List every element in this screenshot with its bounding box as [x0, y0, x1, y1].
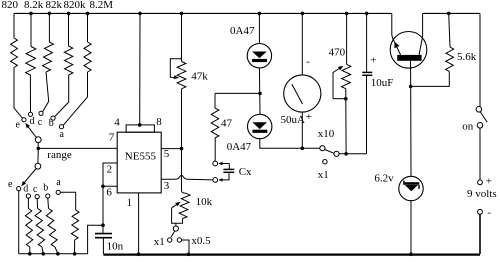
switch pole x10	[320, 146, 325, 151]
svg-text:x1: x1	[318, 169, 329, 181]
switch contact to cal node	[334, 151, 339, 156]
svg-text:range: range	[47, 149, 72, 161]
node base/5.6k	[409, 85, 413, 89]
switch contact b (upper)	[51, 116, 55, 120]
pin label 5	[164, 148, 170, 160]
switch contact x0.5	[177, 238, 181, 242]
node x0.5/ground	[187, 253, 191, 257]
label NE555	[125, 150, 157, 162]
label meter plus	[306, 111, 312, 123]
node range junction	[37, 147, 41, 151]
label 0A47 (D1)	[230, 25, 255, 37]
top value labels 820 8.2k 82k 820k 8.2M	[2, 0, 114, 11]
label x1 (bottom)	[154, 236, 165, 248]
wire meter to x10 wire	[301, 112, 303, 148]
wire rail to D1	[258, 13, 260, 43]
svg-text:10n: 10n	[107, 241, 124, 253]
label 5.6k	[457, 51, 477, 63]
svg-text:2: 2	[107, 164, 113, 176]
svg-text:3: 3	[164, 180, 170, 192]
wire 555 pins 4-8 to rail	[139, 13, 141, 125]
svg-text:9 volts: 9 volts	[467, 188, 497, 200]
label 470	[329, 47, 346, 59]
svg-text:470: 470	[329, 47, 346, 59]
svg-text:Cx: Cx	[239, 166, 252, 178]
capacitor Cx symbol	[218, 162, 234, 182]
resistor multiplier c	[35, 199, 45, 254]
wire D1 to D2	[258, 68, 261, 114]
svg-text:820k: 820k	[64, 0, 87, 11]
wire x0.5 to ground rail	[182, 240, 189, 254]
transistor Q1	[390, 13, 427, 68]
node pin5/47k/10k	[180, 147, 184, 151]
node zener/ground	[409, 253, 413, 257]
label 10k	[196, 196, 213, 208]
svg-text:82k: 82k	[46, 0, 63, 11]
svg-text:8: 8	[156, 116, 162, 128]
rotary wiper arm (upper)	[25, 123, 36, 138]
label a (lower)	[56, 177, 61, 188]
switch arm x10	[325, 150, 334, 154]
wire pins 2-6 down to 10n node	[102, 186, 104, 225]
switch contact x1	[168, 238, 172, 242]
label 47	[221, 118, 233, 130]
label battery -	[487, 207, 491, 219]
svg-text:10k: 10k	[196, 196, 213, 208]
node 470/cal	[344, 152, 348, 156]
wire 47 top to diode node	[215, 92, 260, 94]
label x10	[318, 128, 335, 140]
label d (lower)	[23, 184, 28, 195]
wire zener to ground rail	[410, 201, 412, 254]
wire battery - to ground rail	[479, 214, 481, 254]
svg-text:+: +	[306, 111, 312, 123]
switch contact a (lower)	[56, 190, 60, 194]
wire switch to battery +	[479, 128, 481, 180]
label x1 (meter)	[318, 169, 329, 181]
node bank/d	[28, 252, 32, 256]
svg-text:47k: 47k	[191, 70, 208, 82]
svg-text:50uA: 50uA	[281, 114, 306, 126]
switch contact c (lower)	[35, 195, 39, 199]
wire pin 1 to ground rail	[138, 193, 140, 254]
zener diode 6.2v	[399, 176, 423, 200]
wire contact e to bank rail	[18, 191, 20, 254]
svg-text:NE555: NE555	[125, 150, 157, 162]
node pin2-6	[101, 185, 105, 189]
svg-text:on: on	[462, 121, 474, 133]
svg-text:10uF: 10uF	[371, 77, 394, 89]
label range	[47, 149, 72, 161]
wire 10k wiper to pole	[175, 223, 177, 225]
switch contact e (lower)	[17, 187, 21, 191]
node 470 bottom	[344, 97, 348, 101]
switch on-off arm	[480, 112, 487, 122]
switch arm x-mult	[171, 231, 175, 237]
switch on-off pivot	[476, 107, 482, 113]
resistor 82k	[43, 13, 54, 111]
rotary pole (upper)	[35, 137, 41, 143]
label 6.2v	[374, 173, 394, 185]
resistor 5.6k	[411, 13, 454, 86]
label 10n	[107, 241, 124, 253]
label 0A47 (D2)	[227, 141, 252, 153]
switch contact e (upper)	[22, 118, 26, 122]
wire ground rail (thick)	[103, 254, 480, 256]
resistor 820	[11, 13, 23, 118]
node rail/diodes	[258, 12, 262, 16]
svg-text:5.6k: 5.6k	[457, 51, 477, 63]
svg-text:+: +	[370, 55, 376, 67]
label x0.5	[191, 235, 211, 247]
label 9 volts	[467, 188, 497, 200]
node bank/b	[56, 252, 60, 256]
wire 555 pin 3 to Cx terminal (with hop)	[161, 175, 213, 180]
node rail/82k	[48, 12, 52, 16]
switch pole x-mult	[173, 226, 178, 231]
svg-text:a: a	[56, 177, 61, 188]
pin label 4	[114, 117, 120, 129]
wire 470 bottom to cal node	[345, 99, 347, 154]
resistor 8.2k	[26, 13, 36, 112]
svg-text:1: 1	[127, 197, 133, 209]
svg-text:5: 5	[164, 148, 170, 160]
switch contact d (lower)	[26, 194, 30, 198]
wire lower bank rail	[19, 225, 103, 254]
switch contact c (upper)	[39, 111, 43, 115]
label b (lower)	[43, 183, 48, 194]
node rail/820k	[67, 12, 71, 16]
resistor multiplier b	[46, 198, 58, 254]
node diodes/47	[258, 92, 262, 96]
label d (upper)	[30, 116, 35, 127]
pin label 2	[107, 164, 113, 176]
wire pin5 node down to 10k	[182, 149, 187, 194]
label e (upper)	[16, 120, 21, 131]
node 10n top junction	[101, 223, 105, 227]
wire cal contact to node	[339, 153, 366, 155]
label e (lower)	[8, 179, 13, 190]
switch contact a (upper)	[59, 125, 63, 129]
label Cx	[239, 166, 252, 178]
node rail/470	[345, 12, 349, 16]
diode D1 0A47	[247, 44, 271, 68]
svg-text:x10: x10	[318, 128, 335, 140]
resistor 820k	[55, 13, 73, 116]
svg-text:x1: x1	[154, 236, 165, 248]
svg-text:0A47: 0A47	[227, 141, 252, 153]
wire range node to 555 pin 7	[38, 147, 117, 149]
svg-text:820: 820	[2, 0, 19, 11]
switch contact on	[477, 123, 483, 129]
label 50uA	[281, 114, 306, 126]
label on	[462, 121, 474, 133]
label b (upper)	[49, 118, 54, 129]
NE555 top tab pins 4-8	[126, 125, 154, 132]
capacitor 10uF	[362, 13, 372, 153]
svg-text:0A47: 0A47	[230, 25, 255, 37]
switch contact b (lower)	[46, 194, 50, 198]
resistor multiplier a	[60, 192, 79, 254]
svg-text:a: a	[60, 129, 65, 140]
switch contact d (upper)	[28, 112, 32, 116]
op-amp U1 NE555 body	[117, 132, 161, 193]
wire collector segment to battery switch	[423, 12, 480, 14]
node tab top	[138, 123, 142, 127]
svg-text:8.2k: 8.2k	[24, 0, 44, 11]
wire Cx top terminal to 47R	[214, 138, 216, 161]
svg-text:x0.5: x0.5	[191, 235, 211, 247]
pin 2-6 stub box	[103, 163, 117, 186]
svg-text:c: c	[38, 117, 43, 128]
node bank/a	[73, 252, 77, 256]
node rail/47k	[180, 12, 184, 16]
svg-text:e: e	[8, 179, 13, 190]
svg-text:d: d	[23, 184, 28, 195]
svg-text:-: -	[487, 207, 491, 219]
svg-text:6: 6	[106, 186, 112, 198]
wire battery switch drop	[479, 13, 481, 106]
svg-text:+: +	[486, 175, 492, 187]
svg-text:d: d	[30, 116, 35, 127]
wire pole to range node	[37, 143, 39, 149]
pin label 3	[164, 180, 170, 192]
meter M 50uA	[284, 13, 321, 112]
label c (upper)	[38, 117, 43, 128]
rotary wiper arm (lower)	[21, 169, 36, 187]
label 10uF plus	[370, 55, 376, 67]
wire base down to zener	[410, 61, 413, 177]
label 10uF	[371, 77, 394, 89]
label a (upper)	[60, 129, 65, 140]
svg-text:b: b	[49, 118, 54, 129]
node bank/c	[42, 252, 46, 256]
svg-text:e: e	[16, 120, 21, 131]
svg-text:8.2M: 8.2M	[90, 0, 114, 11]
svg-text:b: b	[43, 183, 48, 194]
switch contact x1 (meter)	[323, 160, 327, 164]
node collector/5.6k	[447, 12, 451, 16]
svg-text:7: 7	[109, 131, 115, 143]
label battery +	[486, 175, 492, 187]
pin label 6	[106, 186, 112, 198]
node rail/8.2k	[29, 12, 33, 16]
node rail/555 pins 4-8	[138, 12, 142, 16]
pin label 8	[156, 116, 162, 128]
diode D2 0A47	[248, 114, 272, 138]
svg-text:4: 4	[114, 117, 120, 129]
rotary pole (lower)	[35, 163, 41, 169]
wire top +9V rail	[14, 12, 392, 14]
resistor 8.2M	[63, 13, 91, 125]
resistor 47	[211, 93, 219, 138]
svg-text:-: -	[306, 56, 310, 68]
node rail/meter	[301, 12, 305, 16]
svg-text:6.2v: 6.2v	[374, 173, 394, 185]
node rail/8.2M	[86, 12, 90, 16]
label meter minus	[306, 56, 310, 68]
pin label 7	[109, 131, 115, 143]
wire 47k bottom to pin5 node	[181, 89, 183, 149]
capacitor C 10n	[95, 225, 112, 254]
svg-text:47: 47	[221, 118, 233, 130]
terminal Cx bottom	[213, 178, 218, 183]
terminal battery -	[478, 209, 483, 214]
node rail/10uF	[365, 12, 369, 16]
svg-text:c: c	[33, 184, 38, 195]
wire 555 pin 5 stub	[161, 148, 181, 150]
label c (lower)	[33, 184, 38, 195]
trimpot 470	[333, 13, 351, 98]
node pin1/ground	[137, 253, 141, 257]
wire D2 to x10 switch	[260, 139, 320, 149]
terminal Cx top	[213, 161, 218, 166]
label 47k	[191, 70, 208, 82]
terminal battery +	[478, 180, 483, 185]
pin label 1	[127, 197, 133, 209]
trimpot 47k	[170, 13, 186, 88]
resistor multiplier d	[25, 198, 32, 254]
wire range node down to lower pole	[37, 148, 39, 163]
trimpot 10k	[172, 193, 190, 223]
node meter/x10 wire	[301, 147, 305, 151]
